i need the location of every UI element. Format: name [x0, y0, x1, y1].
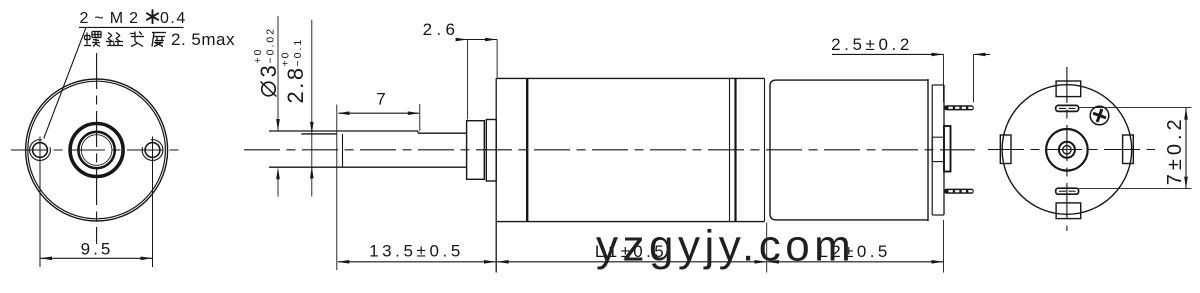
svg-text:+0: +0 [252, 48, 264, 64]
svg-text:2.6: 2.6 [423, 20, 460, 39]
svg-text:9.5: 9.5 [81, 239, 114, 258]
svg-text:2.5±0.2: 2.5±0.2 [831, 35, 913, 54]
svg-text:−0.1: −0.1 [292, 38, 304, 67]
svg-text:13.5±0.5: 13.5±0.5 [369, 242, 464, 261]
svg-text:−0.02: −0.02 [265, 27, 277, 64]
svg-text:7±0.2: 7±0.2 [1164, 115, 1186, 185]
svg-text:2~M2: 2~M2 [80, 10, 144, 27]
svg-text:2.8: 2.8 [283, 65, 308, 103]
svg-text:yzgyjy.com: yzgyjy.com [596, 222, 855, 271]
svg-text:0.4: 0.4 [160, 10, 187, 27]
svg-text:2. 5max: 2. 5max [171, 30, 235, 49]
svg-text:7: 7 [376, 89, 385, 108]
svg-text:+0: +0 [280, 51, 292, 67]
svg-text:3: 3 [256, 65, 281, 77]
